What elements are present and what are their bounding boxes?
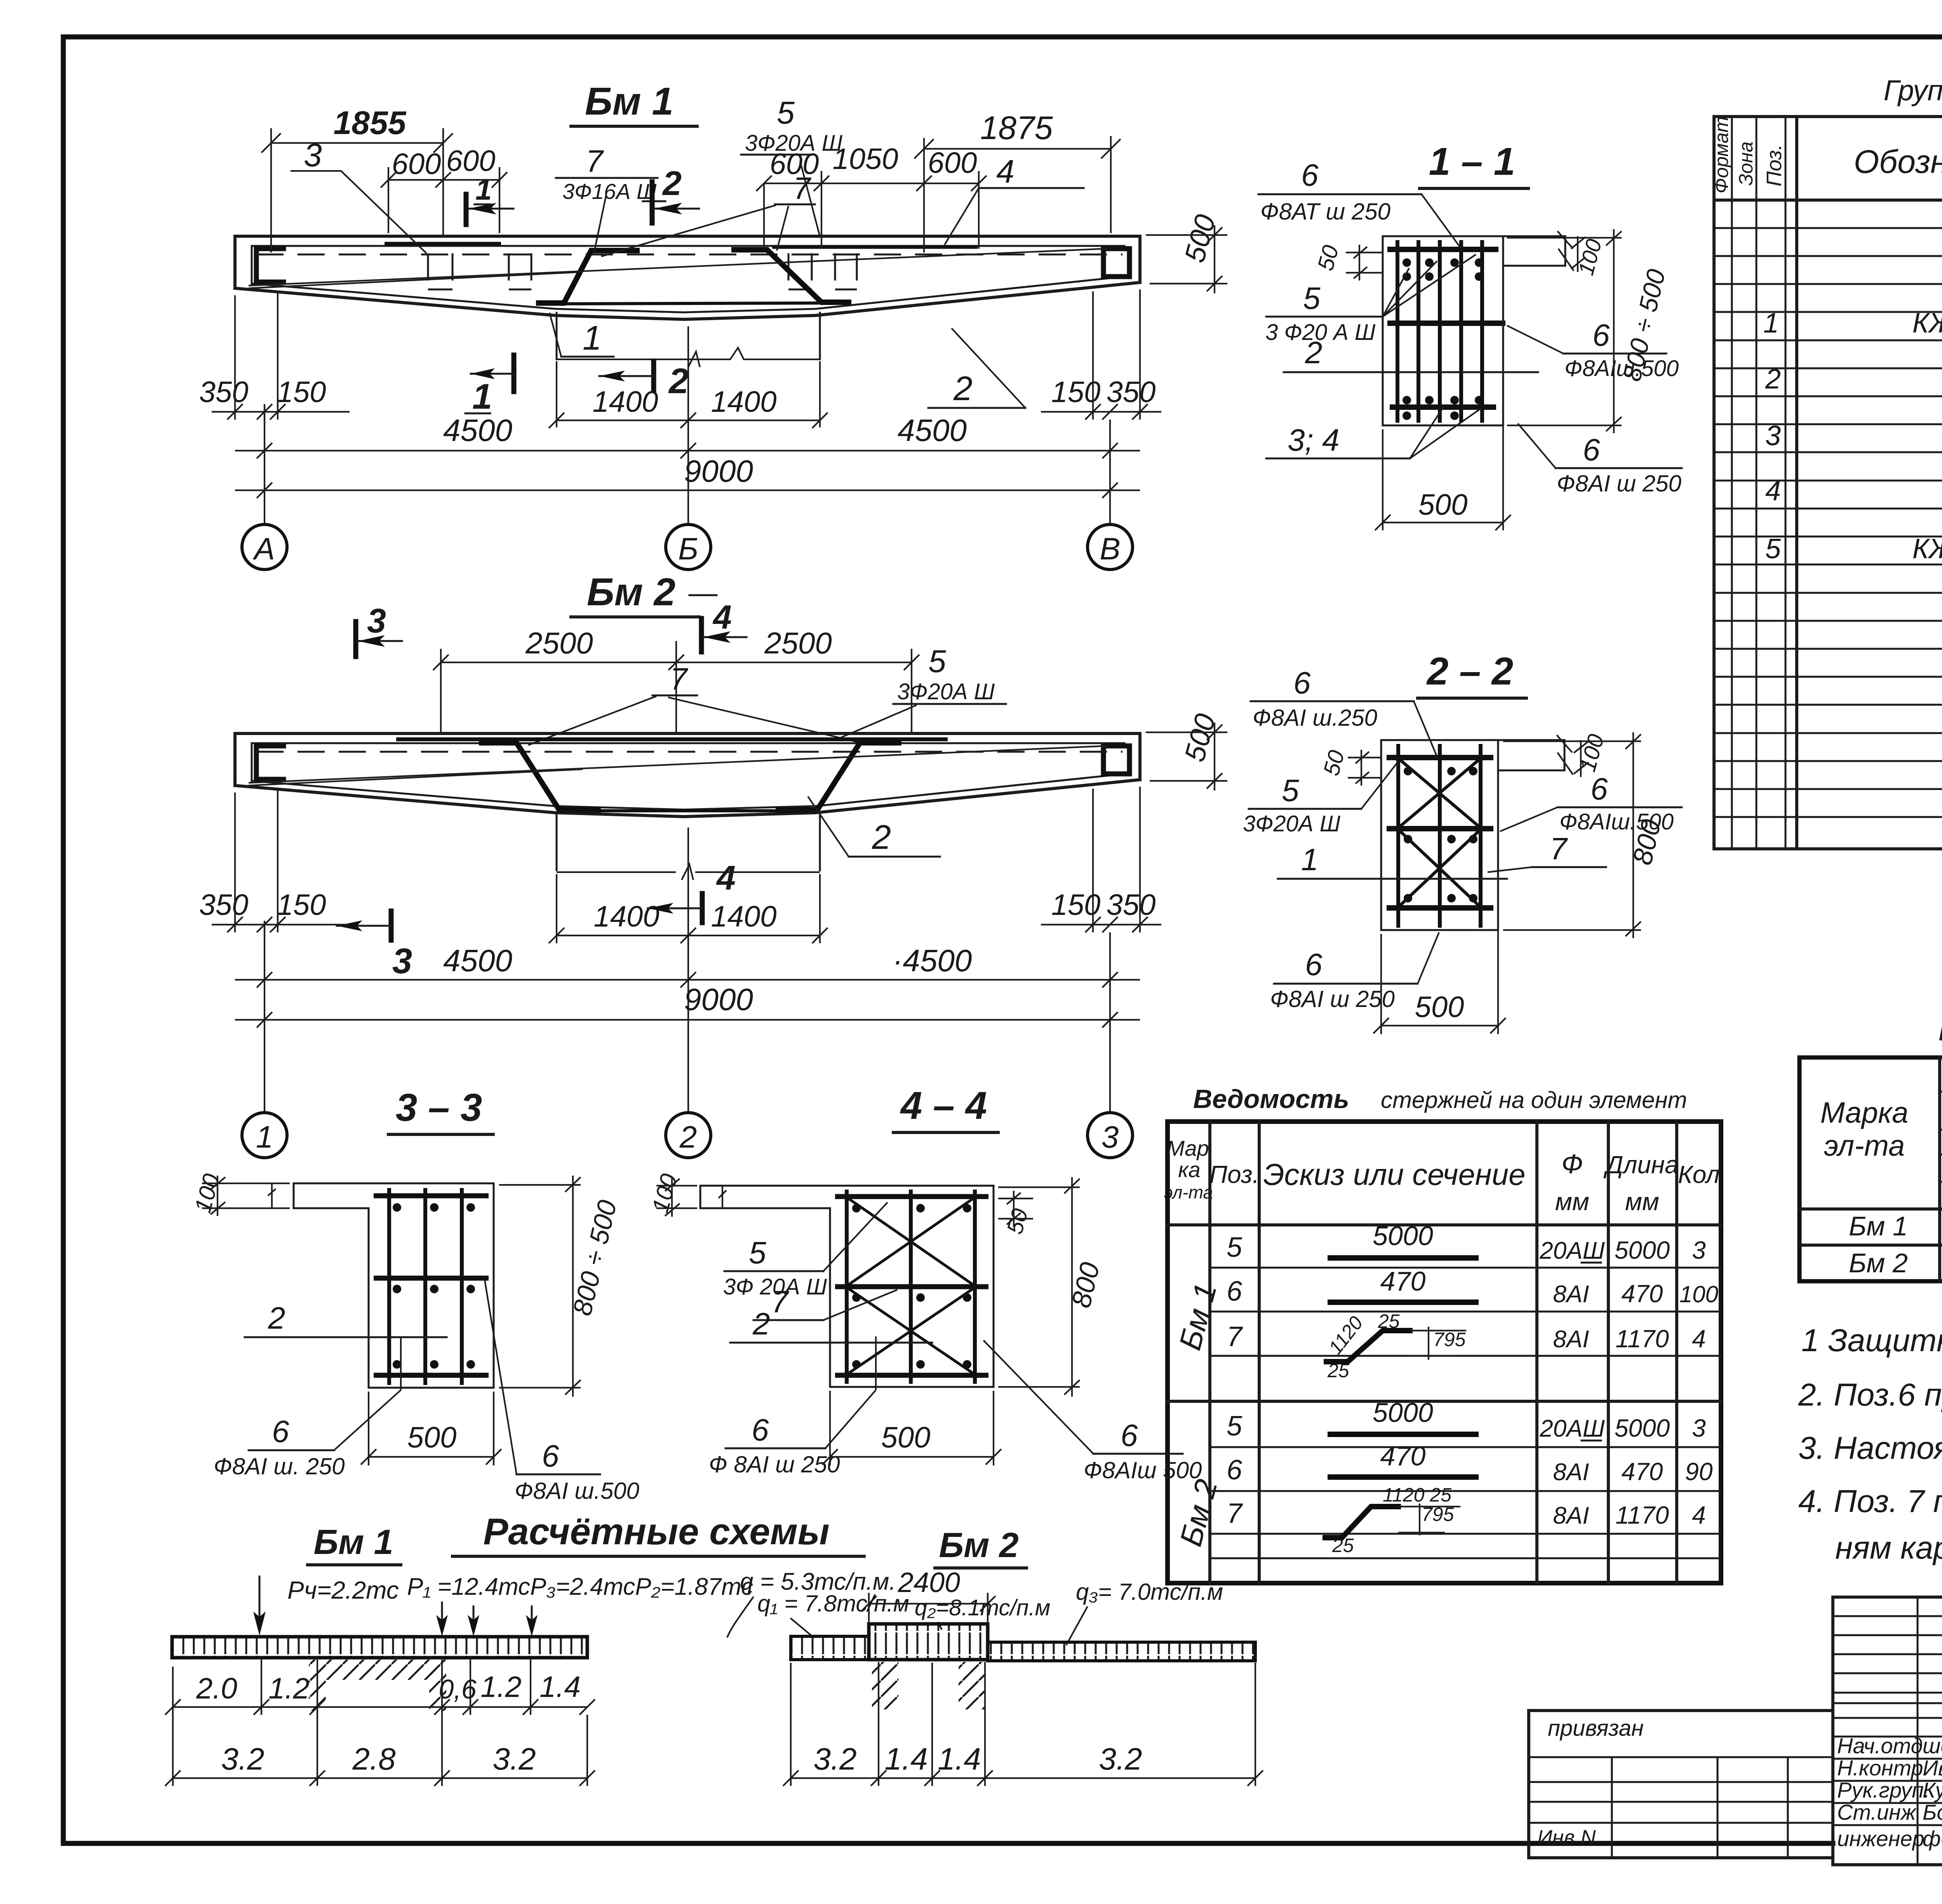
svg-text:1400: 1400 bbox=[593, 900, 659, 933]
svg-text:Поз.: Поз. bbox=[1209, 1160, 1260, 1188]
svg-text:9000: 9000 bbox=[684, 454, 753, 488]
svg-text:Выборка стали на один элемент: Выборка стали на один элемент, кг bbox=[1938, 1012, 1942, 1047]
svg-text:1050: 1050 bbox=[832, 143, 898, 176]
svg-text:Мар: Мар bbox=[1166, 1136, 1209, 1160]
svg-text:Бм 2: Бм 2 bbox=[939, 1526, 1018, 1565]
beam bar Bm1 hatched bbox=[172, 1637, 587, 1658]
svg-text:1 – 1: 1 – 1 bbox=[1429, 140, 1515, 183]
svg-text:Расчётные схемы: Расчётные схемы bbox=[483, 1511, 829, 1552]
group specification table (top right) bbox=[1711, 74, 1942, 849]
svg-text:3Ф20А Ш: 3Ф20А Ш bbox=[1243, 811, 1341, 836]
svg-text:5000: 5000 bbox=[1373, 1221, 1433, 1251]
svg-text:2: 2 bbox=[953, 369, 973, 408]
section 4-4 bbox=[647, 1084, 1202, 1483]
Bm2 right end bbox=[1138, 733, 1142, 780]
beam Bm1 elevation bbox=[199, 80, 1227, 570]
section flag 3 bottom bbox=[389, 911, 394, 940]
svg-text:привязан: привязан bbox=[1548, 1716, 1644, 1741]
svg-text:Ф8АТ ш 250: Ф8АТ ш 250 bbox=[1260, 199, 1390, 225]
section flag 2 bottom bbox=[651, 361, 656, 390]
section 3-3 bbox=[190, 1086, 639, 1504]
spec table column lines bbox=[1732, 117, 1785, 849]
bar schedule row lines bbox=[1210, 1268, 1721, 1558]
svg-text:2.8: 2.8 bbox=[352, 1742, 396, 1776]
Bm1 bottom edges bbox=[235, 282, 1140, 319]
bent bar 7 right bbox=[778, 743, 899, 810]
Bm2 bottom edges bbox=[235, 780, 1140, 817]
svg-text:2500: 2500 bbox=[525, 626, 593, 660]
svg-text:470: 470 bbox=[1622, 1280, 1663, 1308]
svg-text:Длина: Длина bbox=[1603, 1151, 1679, 1179]
wall hatch below Bm2 bbox=[872, 1662, 898, 1709]
column stub below bbox=[557, 814, 820, 870]
svg-text:стержней на один элемент: стержней на один элемент bbox=[1381, 1087, 1687, 1113]
svg-text:5: 5 bbox=[1303, 281, 1321, 315]
svg-text:3Ф16А Ш: 3Ф16А Ш bbox=[562, 179, 657, 204]
svg-text:Б: Б bbox=[678, 531, 698, 566]
svg-text:1: 1 bbox=[1763, 308, 1779, 339]
svg-text:Поз.: Поз. bbox=[1763, 144, 1786, 186]
svg-text:6: 6 bbox=[1592, 318, 1610, 352]
svg-text:эл-та: эл-та bbox=[1824, 1129, 1905, 1162]
svg-text:350: 350 bbox=[1107, 376, 1156, 409]
horizontal bars bbox=[1387, 247, 1498, 252]
svg-text:6: 6 bbox=[1293, 665, 1311, 700]
svg-text:100: 100 bbox=[1679, 1281, 1718, 1307]
svg-text:Кунцевич: Кунцевич bbox=[1923, 1778, 1942, 1802]
personnel block outline bbox=[1833, 1597, 1942, 1865]
svg-text:8АI: 8АI bbox=[1553, 1459, 1589, 1486]
svg-text:470: 470 bbox=[1380, 1266, 1426, 1296]
horizontal bars bbox=[374, 1193, 489, 1198]
top mesh bar left (pos 3) bbox=[385, 242, 501, 246]
svg-text:5: 5 bbox=[928, 644, 946, 679]
svg-text:Ведомость: Ведомость bbox=[1193, 1084, 1349, 1114]
svg-text:470: 470 bbox=[1622, 1458, 1663, 1486]
svg-text:мм: мм bbox=[1555, 1188, 1589, 1216]
svg-text:2: 2 bbox=[1305, 335, 1323, 370]
svg-text:4: 4 bbox=[1692, 1501, 1706, 1529]
svg-text:1 Защитный слой бетона дл: 1 Защитный слой бетона для рабочей армат… bbox=[1801, 1323, 1942, 1358]
squiggle break mark bbox=[682, 864, 693, 880]
svg-text:шейко: шейко bbox=[1923, 1733, 1942, 1758]
svg-text:5: 5 bbox=[1765, 533, 1781, 564]
svg-text:6: 6 bbox=[1227, 1276, 1242, 1307]
beam bars Bm2 hatched bbox=[791, 1636, 869, 1660]
svg-text:1: 1 bbox=[256, 1120, 273, 1154]
horizontal bars bbox=[1387, 755, 1493, 760]
concrete outline bbox=[1381, 740, 1564, 930]
svg-text:инженер: инженер bbox=[1837, 1826, 1925, 1851]
svg-text:3: 3 bbox=[1102, 1120, 1119, 1154]
section flag 4 top bbox=[699, 618, 704, 652]
section 2-2 bbox=[1243, 650, 1682, 1034]
svg-text:600: 600 bbox=[446, 145, 496, 178]
X bracing bars bbox=[847, 1197, 975, 1374]
svg-text:7: 7 bbox=[586, 144, 604, 178]
svg-text:Ф 8АI ш 250: Ф 8АI ш 250 bbox=[709, 1451, 840, 1477]
svg-text:q₂=8.1тс/п.м: q₂=8.1тс/п.м bbox=[915, 1595, 1050, 1620]
svg-text:7: 7 bbox=[1227, 1321, 1243, 1352]
svg-text:4: 4 bbox=[712, 599, 732, 636]
svg-text:3.2: 3.2 bbox=[221, 1742, 264, 1776]
Bm1 outline top bbox=[235, 235, 1140, 238]
bar schedule outer border bbox=[1168, 1122, 1721, 1583]
svg-text:1400: 1400 bbox=[711, 385, 776, 418]
axis lines to bubbles bbox=[265, 921, 1110, 1112]
svg-text:3.2: 3.2 bbox=[813, 1742, 856, 1776]
svg-text:2: 2 bbox=[668, 361, 689, 401]
svg-text:6: 6 bbox=[272, 1414, 289, 1449]
svg-text:3: 3 bbox=[367, 601, 386, 640]
Bm1 right end bbox=[1138, 236, 1142, 282]
svg-text:Нач.отд: Нач.отд bbox=[1837, 1733, 1923, 1758]
embedded part dashed left bbox=[428, 253, 531, 289]
section flag 1 top bbox=[464, 194, 469, 225]
grid bubble A bbox=[242, 524, 287, 570]
svg-text:Ф8АI ш.250: Ф8АI ш.250 bbox=[1253, 705, 1377, 731]
svg-text:2500: 2500 bbox=[764, 626, 832, 660]
bottom bar between bends bbox=[559, 809, 817, 812]
svg-text:7: 7 bbox=[771, 1284, 789, 1319]
section flag 1 bottom bbox=[512, 355, 517, 392]
svg-text:Бм 1: Бм 1 bbox=[1849, 1211, 1908, 1241]
right end anchor plate bbox=[1103, 249, 1129, 277]
svg-text:Кол: Кол bbox=[1678, 1160, 1720, 1188]
svg-text:Ф8АI ш 250: Ф8АI ш 250 bbox=[1557, 470, 1681, 496]
svg-text:7: 7 bbox=[793, 171, 811, 206]
svg-text:·4500: ·4500 bbox=[893, 943, 972, 978]
svg-text:Обозначение: Обозначение bbox=[1854, 143, 1942, 180]
privyazan block bbox=[1529, 1711, 1833, 1858]
svg-text:2.0: 2.0 bbox=[196, 1672, 237, 1705]
title block bbox=[1529, 1597, 1942, 1895]
wall hatch below bbox=[317, 1660, 442, 1680]
svg-text:Рук.груп.: Рук.груп. bbox=[1837, 1778, 1930, 1802]
svg-text:6: 6 bbox=[1590, 772, 1608, 806]
section 1-1 bbox=[1258, 140, 1682, 530]
personnel rows bbox=[1833, 1737, 1942, 1825]
left end anchor plate bbox=[256, 746, 284, 779]
svg-text:Групповая спецификация для мон: Групповая спецификация для монолитных эл… bbox=[1884, 74, 1942, 106]
concrete outline with slab at left bbox=[700, 1186, 994, 1387]
svg-text:мм: мм bbox=[1625, 1188, 1659, 1216]
numbered notes bbox=[1798, 1323, 1942, 1566]
steel table horizontal lines bbox=[1940, 1092, 1942, 1182]
svg-text:1.2: 1.2 bbox=[268, 1672, 310, 1705]
svg-text:1.4: 1.4 bbox=[938, 1742, 981, 1776]
X bracing bars bbox=[1398, 758, 1481, 907]
bar schedule verticals bbox=[1210, 1122, 1677, 1583]
svg-text:3: 3 bbox=[1692, 1414, 1706, 1442]
top bar pos 5 bbox=[396, 737, 948, 741]
squiggle on dim bbox=[688, 352, 700, 367]
svg-text:5000: 5000 bbox=[1615, 1414, 1670, 1442]
right end anchor plate bbox=[1103, 746, 1129, 774]
svg-text:ням каркасов КР11, КР12,: ням каркасов КР11, КР12, Высота шва hш =… bbox=[1835, 1530, 1942, 1566]
svg-text:3. Настоящий чертеж см совм: 3. Настоящий чертеж см совместно с л.КНС… bbox=[1798, 1430, 1942, 1466]
svg-text:5: 5 bbox=[1227, 1411, 1242, 1442]
svg-text:2 – 2: 2 – 2 bbox=[1426, 650, 1513, 693]
svg-text:1: 1 bbox=[475, 173, 492, 206]
svg-text:3.2: 3.2 bbox=[1099, 1742, 1142, 1776]
vertical bars bbox=[847, 1190, 975, 1384]
svg-text:5: 5 bbox=[1282, 773, 1299, 808]
svg-text:P₁ =12.4тсP₃=2.4тсP₂=1.87тс: P₁ =12.4тсP₃=2.4тсP₂=1.87тс bbox=[407, 1573, 753, 1600]
svg-text:9000: 9000 bbox=[684, 982, 753, 1017]
svg-text:20АШ: 20АШ bbox=[1539, 1237, 1605, 1264]
beam Bm2 elevation bbox=[199, 570, 1227, 1158]
svg-text:5: 5 bbox=[749, 1235, 766, 1270]
section flag 2 top bbox=[650, 182, 655, 223]
svg-text:4. Поз. 7 приварить в п: 4. Поз. 7 приварить в пересечении к прод… bbox=[1798, 1484, 1942, 1519]
svg-text:Бм 1: Бм 1 bbox=[313, 1523, 393, 1562]
svg-text:Иванов: Иванов bbox=[1923, 1756, 1942, 1780]
svg-text:4: 4 bbox=[996, 153, 1015, 190]
svg-text:1.2: 1.2 bbox=[480, 1671, 522, 1704]
concrete outline with slab at left bbox=[294, 1183, 494, 1388]
concrete outline bbox=[1383, 236, 1565, 425]
svg-text:6: 6 bbox=[1583, 432, 1600, 467]
svg-text:3 – 3: 3 – 3 bbox=[396, 1086, 482, 1129]
svg-text:q₁ = 7.8тс/п.м: q₁ = 7.8тс/п.м bbox=[757, 1590, 909, 1617]
section flag 3 top bbox=[353, 622, 358, 657]
svg-text:Ст.инж: Ст.инж bbox=[1837, 1800, 1917, 1824]
svg-text:6: 6 bbox=[1301, 158, 1319, 192]
left end anchor plate bbox=[256, 249, 284, 282]
svg-text:3: 3 bbox=[392, 941, 412, 981]
svg-text:Ф8АI ш. 250: Ф8АI ш. 250 bbox=[214, 1453, 345, 1479]
break marks on slab edge bbox=[1557, 231, 1574, 271]
Bm2 left end bbox=[233, 733, 237, 786]
svg-text:1875: 1875 bbox=[980, 110, 1053, 146]
column stub below bbox=[557, 313, 820, 359]
grid bubble V bbox=[1088, 524, 1133, 570]
svg-text:КЖ-25: КЖ-25 bbox=[1912, 533, 1942, 564]
svg-text:3.2: 3.2 bbox=[492, 1742, 536, 1776]
svg-text:Бм 2: Бм 2 bbox=[1849, 1248, 1908, 1278]
bottom bar between bends bbox=[564, 303, 821, 304]
svg-text:3Ф20А Ш: 3Ф20А Ш bbox=[897, 679, 995, 704]
svg-text:500: 500 bbox=[1418, 488, 1468, 521]
spec table header bottom line bbox=[1714, 199, 1942, 202]
rebar dots bbox=[393, 1203, 475, 1369]
svg-text:7: 7 bbox=[670, 662, 688, 696]
svg-text:2: 2 bbox=[268, 1301, 285, 1335]
svg-text:4: 4 bbox=[716, 859, 736, 897]
svg-text:3: 3 bbox=[1692, 1236, 1706, 1264]
svg-text:1: 1 bbox=[1301, 842, 1319, 877]
vertical bars bbox=[1397, 240, 1482, 423]
svg-text:8АI: 8АI bbox=[1553, 1326, 1589, 1353]
svg-text:350: 350 bbox=[1107, 888, 1156, 922]
bar schedule header bottom bbox=[1168, 1223, 1721, 1226]
grid bubble B bbox=[666, 524, 711, 570]
svg-text:фоменко: фоменко bbox=[1923, 1826, 1942, 1851]
svg-text:КЖ-29: КЖ-29 bbox=[1912, 308, 1942, 339]
svg-text:Инв N: Инв N bbox=[1537, 1826, 1596, 1849]
svg-text:Ф8АI ш.500: Ф8АI ш.500 bbox=[515, 1478, 639, 1504]
svg-text:4: 4 bbox=[1692, 1325, 1706, 1353]
svg-text:470: 470 bbox=[1380, 1441, 1426, 1471]
rebar dots bbox=[852, 1204, 971, 1369]
section flag 4 bottom bbox=[700, 894, 705, 923]
svg-text:А: А bbox=[252, 531, 275, 566]
svg-text:эл-та: эл-та bbox=[1164, 1182, 1213, 1202]
svg-text:150: 150 bbox=[277, 888, 326, 922]
svg-text:8АI: 8АI bbox=[1553, 1502, 1589, 1529]
vertical bars bbox=[1398, 744, 1481, 928]
long leader line across beam bbox=[249, 746, 1107, 783]
steel selection table (middle right) bbox=[1799, 1012, 1942, 1281]
design schemes heading bbox=[165, 1511, 1263, 1786]
svg-text:4500: 4500 bbox=[443, 413, 512, 448]
svg-text:500: 500 bbox=[407, 1421, 457, 1454]
bm1/bm2 separator bbox=[1168, 1400, 1721, 1403]
svg-text:600: 600 bbox=[928, 146, 977, 179]
svg-text:Зона: Зона bbox=[1735, 141, 1757, 186]
grid bubble 3 bbox=[1088, 1113, 1133, 1158]
grid bubble 1 bbox=[242, 1113, 287, 1158]
svg-text:1120 25: 1120 25 bbox=[1383, 1484, 1451, 1506]
svg-text:1170: 1170 bbox=[1615, 1501, 1669, 1529]
break squiggle on slab bbox=[268, 1183, 276, 1208]
svg-text:350: 350 bbox=[199, 888, 249, 922]
load arrows bbox=[259, 1577, 532, 1632]
dashed axis line of beam bbox=[256, 254, 1122, 256]
vertical bars bbox=[389, 1188, 462, 1385]
svg-text:500: 500 bbox=[1415, 991, 1464, 1024]
svg-text:6: 6 bbox=[1227, 1455, 1242, 1486]
svg-text:795: 795 bbox=[1433, 1329, 1466, 1350]
svg-text:2: 2 bbox=[752, 1306, 770, 1341]
svg-text:Ф: Ф bbox=[1561, 1149, 1583, 1179]
svg-text:5000: 5000 bbox=[1373, 1397, 1433, 1428]
svg-text:7: 7 bbox=[1550, 831, 1568, 866]
rebar dots bbox=[1403, 258, 1483, 420]
svg-text:Бм 1: Бм 1 bbox=[585, 80, 673, 123]
svg-text:1170: 1170 bbox=[1615, 1325, 1669, 1353]
svg-text:7: 7 bbox=[1227, 1498, 1243, 1529]
svg-text:4500: 4500 bbox=[898, 413, 967, 448]
svg-text:1400: 1400 bbox=[711, 900, 776, 933]
spec table row lines bbox=[1714, 228, 1942, 817]
svg-text:1.4: 1.4 bbox=[539, 1671, 581, 1704]
svg-text:Марка: Марка bbox=[1820, 1096, 1909, 1129]
svg-text:2: 2 bbox=[679, 1120, 697, 1154]
svg-text:6: 6 bbox=[1121, 1418, 1138, 1453]
rebar dots bbox=[1404, 767, 1477, 902]
svg-text:3; 4: 3; 4 bbox=[1288, 423, 1339, 457]
svg-text:Pч=2.2тс: Pч=2.2тс bbox=[287, 1576, 399, 1604]
svg-text:5000: 5000 bbox=[1615, 1236, 1670, 1264]
horizontal bars bbox=[835, 1194, 988, 1199]
svg-text:1: 1 bbox=[472, 377, 492, 416]
svg-text:Ф8АI ш 250: Ф8АI ш 250 bbox=[1270, 986, 1395, 1012]
long leader line across beam bbox=[249, 249, 1107, 286]
svg-text:Н.контр.: Н.контр. bbox=[1837, 1756, 1929, 1780]
svg-text:350: 350 bbox=[199, 376, 249, 409]
svg-text:1855: 1855 bbox=[334, 105, 407, 141]
embedded part dashed right bbox=[788, 253, 857, 289]
svg-text:2. Поз.6 приварить в пересе: 2. Поз.6 приварить в пересечении с плоск… bbox=[1798, 1377, 1942, 1413]
svg-text:Формат: Формат bbox=[1711, 116, 1732, 193]
axis lines down to bubbles bbox=[265, 404, 1110, 523]
svg-text:2: 2 bbox=[872, 818, 891, 856]
svg-text:2: 2 bbox=[662, 164, 682, 202]
bent bar 7 left bbox=[539, 251, 637, 303]
svg-text:500: 500 bbox=[881, 1421, 931, 1454]
steel table outer border bbox=[1799, 1057, 1942, 1281]
svg-text:ка: ка bbox=[1178, 1157, 1201, 1182]
svg-text:2: 2 bbox=[1765, 364, 1781, 395]
top mesh bar right (pos 4) bbox=[772, 246, 978, 249]
upper narrow rows bbox=[1833, 1616, 1942, 1718]
svg-text:q₃= 7.0тс/п.м: q₃= 7.0тс/п.м bbox=[1076, 1579, 1223, 1605]
grid bubble 2 bbox=[666, 1113, 711, 1158]
svg-text:Эскиз или сечение: Эскиз или сечение bbox=[1263, 1157, 1525, 1192]
svg-text:6: 6 bbox=[1305, 947, 1323, 982]
bent bar 7 left bbox=[482, 743, 598, 810]
svg-text:В: В bbox=[1100, 531, 1120, 566]
svg-text:Боровик: Боровик bbox=[1923, 1800, 1942, 1824]
svg-text:4: 4 bbox=[1765, 476, 1781, 507]
svg-text:5: 5 bbox=[777, 95, 795, 131]
svg-text:150: 150 bbox=[277, 376, 326, 409]
svg-text:8АI: 8АI bbox=[1553, 1281, 1589, 1308]
svg-text:3: 3 bbox=[1765, 420, 1781, 451]
steel table vertical lines bbox=[1940, 1057, 1942, 1281]
svg-text:4500: 4500 bbox=[443, 943, 512, 978]
spec table outer border bbox=[1714, 117, 1942, 849]
personnel columns bbox=[1918, 1597, 1942, 1865]
svg-text:1: 1 bbox=[583, 319, 602, 357]
svg-text:6: 6 bbox=[752, 1413, 769, 1447]
svg-text:1.4: 1.4 bbox=[884, 1742, 927, 1776]
svg-text:Бм 2: Бм 2 bbox=[587, 570, 675, 614]
svg-text:6: 6 bbox=[542, 1439, 559, 1473]
svg-text:600: 600 bbox=[392, 148, 441, 181]
svg-text:Ф8АIш 500: Ф8АIш 500 bbox=[1084, 1457, 1202, 1483]
svg-text:5: 5 bbox=[1227, 1232, 1242, 1263]
dashed axis line bbox=[256, 751, 1122, 753]
Bm1 left end bbox=[233, 236, 237, 288]
Bm2 outline top bbox=[235, 732, 1140, 735]
svg-text:1400: 1400 bbox=[592, 385, 658, 418]
svg-text:90: 90 bbox=[1685, 1458, 1713, 1486]
svg-text:20АШ: 20АШ bbox=[1539, 1415, 1605, 1442]
svg-text:4 – 4: 4 – 4 bbox=[900, 1084, 987, 1127]
bar schedule table (bottom centre) bbox=[1164, 1084, 1721, 1583]
bent bar 7 right bbox=[734, 250, 849, 302]
